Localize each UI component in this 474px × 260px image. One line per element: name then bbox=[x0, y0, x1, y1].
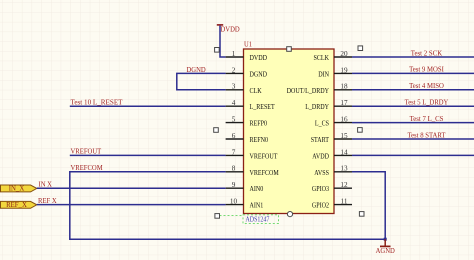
net label VREFOUT bbox=[71, 148, 102, 156]
pin 6 REFN0 bbox=[226, 132, 269, 144]
pin 2 DGND bbox=[226, 66, 267, 78]
svg-text:Test 4 MISO: Test 4 MISO bbox=[409, 82, 444, 90]
net label REF_X bbox=[38, 197, 57, 205]
net label DGND bbox=[187, 66, 206, 74]
net label Test 7 L_CS bbox=[410, 115, 444, 123]
pin 5 REFP0 bbox=[226, 116, 268, 128]
svg-text:DIN: DIN bbox=[318, 70, 329, 78]
svg-text:AGND: AGND bbox=[376, 247, 395, 255]
wire Test 5 L_DRDY from pin 17 bbox=[352, 105, 474, 107]
svg-text:4: 4 bbox=[232, 99, 236, 107]
port REF_X bbox=[1, 201, 37, 209]
svg-text:1: 1 bbox=[232, 50, 236, 58]
svg-text:START: START bbox=[311, 136, 330, 144]
svg-text:10: 10 bbox=[230, 198, 238, 206]
pin 17 L_DRDY bbox=[305, 99, 352, 111]
wire IN_X to pin 9 bbox=[37, 187, 226, 189]
svg-text:AIN0: AIN0 bbox=[250, 185, 264, 193]
svg-text:VREFCOM: VREFCOM bbox=[71, 164, 104, 172]
selection outline of U1 (dashed, partially visible) bbox=[220, 214, 243, 216]
svg-text:13: 13 bbox=[340, 165, 348, 173]
svg-text:GPIO3: GPIO3 bbox=[312, 185, 329, 193]
wire Test 7 L_CS from pin 16 bbox=[352, 122, 474, 124]
pin 8 VREFCOM bbox=[226, 165, 280, 177]
svg-text:L_RESET: L_RESET bbox=[250, 103, 276, 111]
pin 12 GPIO3 bbox=[312, 181, 352, 193]
net label Test 5 L_DRDY bbox=[405, 99, 449, 107]
pin 7 VREFOUT bbox=[226, 148, 278, 160]
svg-text:DGND: DGND bbox=[250, 70, 268, 78]
svg-text:REFP0: REFP0 bbox=[250, 120, 268, 128]
svg-text:U1: U1 bbox=[244, 40, 252, 48]
pin 1 DVDD bbox=[226, 50, 267, 62]
svg-text:VREFOUT: VREFOUT bbox=[250, 152, 278, 160]
svg-text:GPIO2: GPIO2 bbox=[312, 202, 329, 210]
pin 4 L_RESET bbox=[226, 99, 276, 111]
wire Test 8 START from pin 15 bbox=[352, 138, 474, 140]
pin 9 AIN0 bbox=[226, 181, 264, 193]
svg-text:L_DRDY: L_DRDY bbox=[305, 103, 329, 111]
net label Test 4 MISO bbox=[409, 82, 444, 90]
svg-text:5: 5 bbox=[232, 116, 236, 124]
svg-text:12: 12 bbox=[340, 181, 348, 189]
wire L_RESET to pin 4 bbox=[70, 105, 226, 107]
svg-text:REF_X: REF_X bbox=[6, 202, 27, 209]
svg-text:16: 16 bbox=[340, 116, 348, 124]
svg-text:Test 5 L_DRDY: Test 5 L_DRDY bbox=[405, 99, 449, 107]
pin 10 AIN1 bbox=[226, 198, 264, 210]
wire Test 9 MOSI from pin 19 bbox=[352, 72, 474, 74]
pin 3 CLK bbox=[226, 83, 263, 95]
svg-text:AIN1: AIN1 bbox=[250, 202, 264, 210]
svg-text:ADS1247: ADS1247 bbox=[246, 215, 270, 223]
pin 20 SCLK bbox=[314, 50, 353, 62]
IC U1 ADS1247 body bbox=[244, 49, 335, 214]
pin 16 L_CS bbox=[315, 116, 352, 128]
svg-text:19: 19 bbox=[340, 66, 348, 74]
svg-text:IN X: IN X bbox=[39, 181, 53, 189]
svg-text:20: 20 bbox=[340, 50, 348, 58]
pin 15 START bbox=[311, 132, 352, 144]
pin 13 AVSS bbox=[314, 165, 352, 177]
wire VREFOUT to pin 7 bbox=[70, 154, 226, 156]
wire REF_X to pin 10 bbox=[37, 204, 226, 206]
power port DVDD bbox=[217, 25, 240, 33]
svg-text:Test 10 L_RESET: Test 10 L_RESET bbox=[71, 99, 124, 107]
wire DGND net (pin 2 to pin 3) bbox=[177, 73, 226, 89]
svg-text:Test 2 SCK: Test 2 SCK bbox=[411, 49, 442, 57]
svg-text:14: 14 bbox=[340, 148, 348, 156]
wire AVSS pin 13 down to AGND bbox=[352, 172, 385, 239]
svg-text:6: 6 bbox=[232, 132, 236, 140]
svg-text:Test 7 L_CS: Test 7 L_CS bbox=[410, 115, 444, 123]
svg-text:IN_X: IN_X bbox=[9, 186, 25, 193]
svg-text:SCLK: SCLK bbox=[314, 54, 330, 62]
pin 18 DOUT/L_DRDY bbox=[287, 83, 352, 95]
U1 designator label bbox=[244, 40, 252, 48]
U1 value label ADS1247 bbox=[243, 215, 279, 224]
svg-text:11: 11 bbox=[341, 198, 348, 206]
svg-text:15: 15 bbox=[340, 132, 348, 140]
wire AVDD from pin 14 bbox=[352, 154, 474, 156]
net label IN_X bbox=[39, 181, 53, 189]
svg-text:DGND: DGND bbox=[187, 66, 206, 74]
wire VREFCOM: pin 8 left, down and along bottom to AGND junction bbox=[70, 172, 385, 239]
svg-text:AVDD: AVDD bbox=[312, 152, 329, 160]
svg-text:L_CS: L_CS bbox=[315, 120, 329, 128]
pin 14 AVDD bbox=[312, 148, 352, 160]
svg-text:17: 17 bbox=[340, 99, 348, 107]
net label Test 10 L_RESET bbox=[71, 99, 124, 107]
pin 11 GPIO2 bbox=[312, 198, 352, 210]
svg-text:Test 8 START: Test 8 START bbox=[407, 131, 446, 139]
svg-text:9: 9 bbox=[232, 181, 236, 189]
net label VREFCOM bbox=[71, 164, 104, 172]
svg-text:CLK: CLK bbox=[250, 87, 263, 95]
svg-text:7: 7 bbox=[232, 148, 236, 156]
svg-text:DVDD: DVDD bbox=[221, 25, 240, 33]
net label Test 2 SCK bbox=[411, 49, 442, 57]
wire Test 4 MISO from pin 18 bbox=[352, 89, 474, 91]
pin 19 DIN bbox=[318, 66, 352, 78]
svg-text:8: 8 bbox=[232, 165, 236, 173]
selection handles of U1 bbox=[214, 46, 364, 218]
svg-text:VREFOUT: VREFOUT bbox=[71, 148, 102, 156]
svg-text:REF X: REF X bbox=[38, 197, 57, 205]
port IN_X bbox=[1, 185, 37, 193]
net label Test 9 MOSI bbox=[409, 66, 444, 74]
wire Test 2 SCK from pin 20 bbox=[352, 56, 474, 58]
svg-text:Test 9 MOSI: Test 9 MOSI bbox=[409, 66, 444, 74]
ground AGND bbox=[376, 239, 395, 255]
junction at AGND rail bbox=[384, 238, 387, 241]
svg-text:18: 18 bbox=[340, 83, 348, 91]
svg-text:DVDD: DVDD bbox=[250, 54, 268, 62]
net label Test 8 START bbox=[407, 131, 446, 139]
svg-text:3: 3 bbox=[232, 83, 236, 91]
svg-text:2: 2 bbox=[232, 66, 236, 74]
svg-text:REFN0: REFN0 bbox=[250, 136, 269, 144]
svg-text:VREFCOM: VREFCOM bbox=[250, 169, 280, 177]
svg-text:AVSS: AVSS bbox=[314, 169, 329, 177]
wire DVDD to pin 1 bbox=[220, 26, 226, 57]
svg-text:DOUT/L_DRDY: DOUT/L_DRDY bbox=[287, 87, 330, 95]
